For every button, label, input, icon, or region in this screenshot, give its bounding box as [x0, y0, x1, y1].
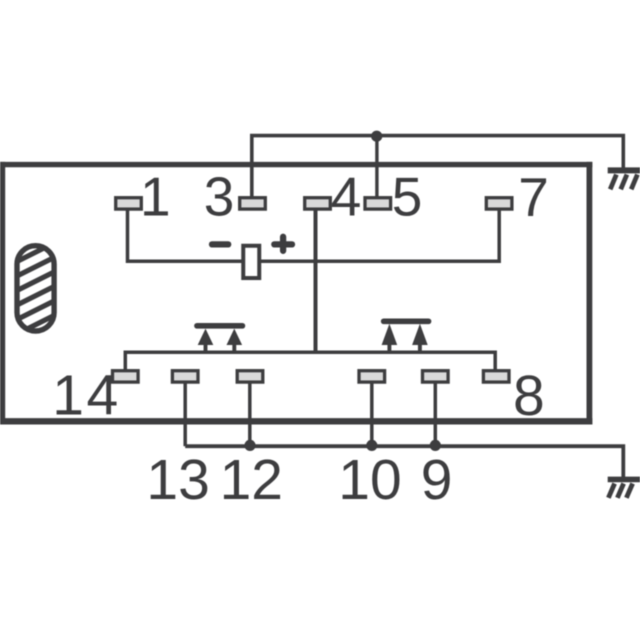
wire: pin 10 down to bottom bus: [370, 383, 374, 446]
svg-text:3: 3: [204, 166, 235, 228]
pin 12 pad: [237, 371, 263, 382]
pin 13 pad: [172, 371, 198, 382]
wire: pin 12 down to bottom bus: [248, 383, 252, 446]
pin 3 pad: [240, 198, 266, 209]
relay body outline: [0, 162, 592, 425]
pin 5 pad: [365, 198, 391, 209]
svg-text:10: 10: [338, 448, 401, 512]
wire: pin 13 down to bottom bus: [183, 383, 187, 446]
node: junction dot pin 9: [430, 440, 441, 451]
svg-text:4: 4: [331, 166, 362, 228]
pin 1 pad: [116, 198, 142, 209]
pin 4 pad: [305, 198, 331, 209]
ground (top right): [608, 170, 640, 189]
wire: top bus from pin 3 to top-right ground: [252, 136, 624, 197]
svg-text:14: 14: [52, 363, 120, 427]
wire: junction to pin 5: [375, 136, 378, 197]
svg-text:1: 1: [140, 166, 171, 228]
contact K1 (left): [197, 326, 242, 352]
svg-text:8: 8: [513, 364, 545, 428]
svg-text:5: 5: [392, 166, 423, 228]
minus sign: [212, 241, 228, 247]
svg-text:7: 7: [518, 166, 549, 228]
plus sign: [274, 241, 292, 247]
ground (bottom right): [608, 479, 640, 497]
contact K2 (right): [382, 321, 429, 352]
node: junction dot pin 12: [244, 440, 255, 451]
svg-text:9: 9: [421, 448, 453, 512]
pin 14 pad: [113, 371, 139, 382]
pin 10 pad: [359, 371, 385, 382]
wire: contact bus 14 to 8: [125, 352, 495, 370]
wire: pin 9 down to bottom bus: [434, 383, 438, 446]
pin 9 pad: [423, 371, 449, 382]
wire: bottom bus to bottom-right ground: [185, 446, 623, 478]
svg-text:12: 12: [220, 448, 283, 512]
node: junction dot pin 10: [366, 440, 377, 451]
pin 8 pad: [483, 371, 509, 382]
svg-text:13: 13: [146, 448, 209, 512]
orientation mark (hatched capsule): [8, 238, 64, 353]
node: junction dot on top bus: [371, 131, 382, 142]
coil C: [212, 237, 292, 278]
wire: coil loop pin1 to pin7: [128, 209, 500, 261]
wire: pin 4 down to contact bus: [314, 209, 318, 352]
pin 7 pad: [486, 198, 512, 209]
